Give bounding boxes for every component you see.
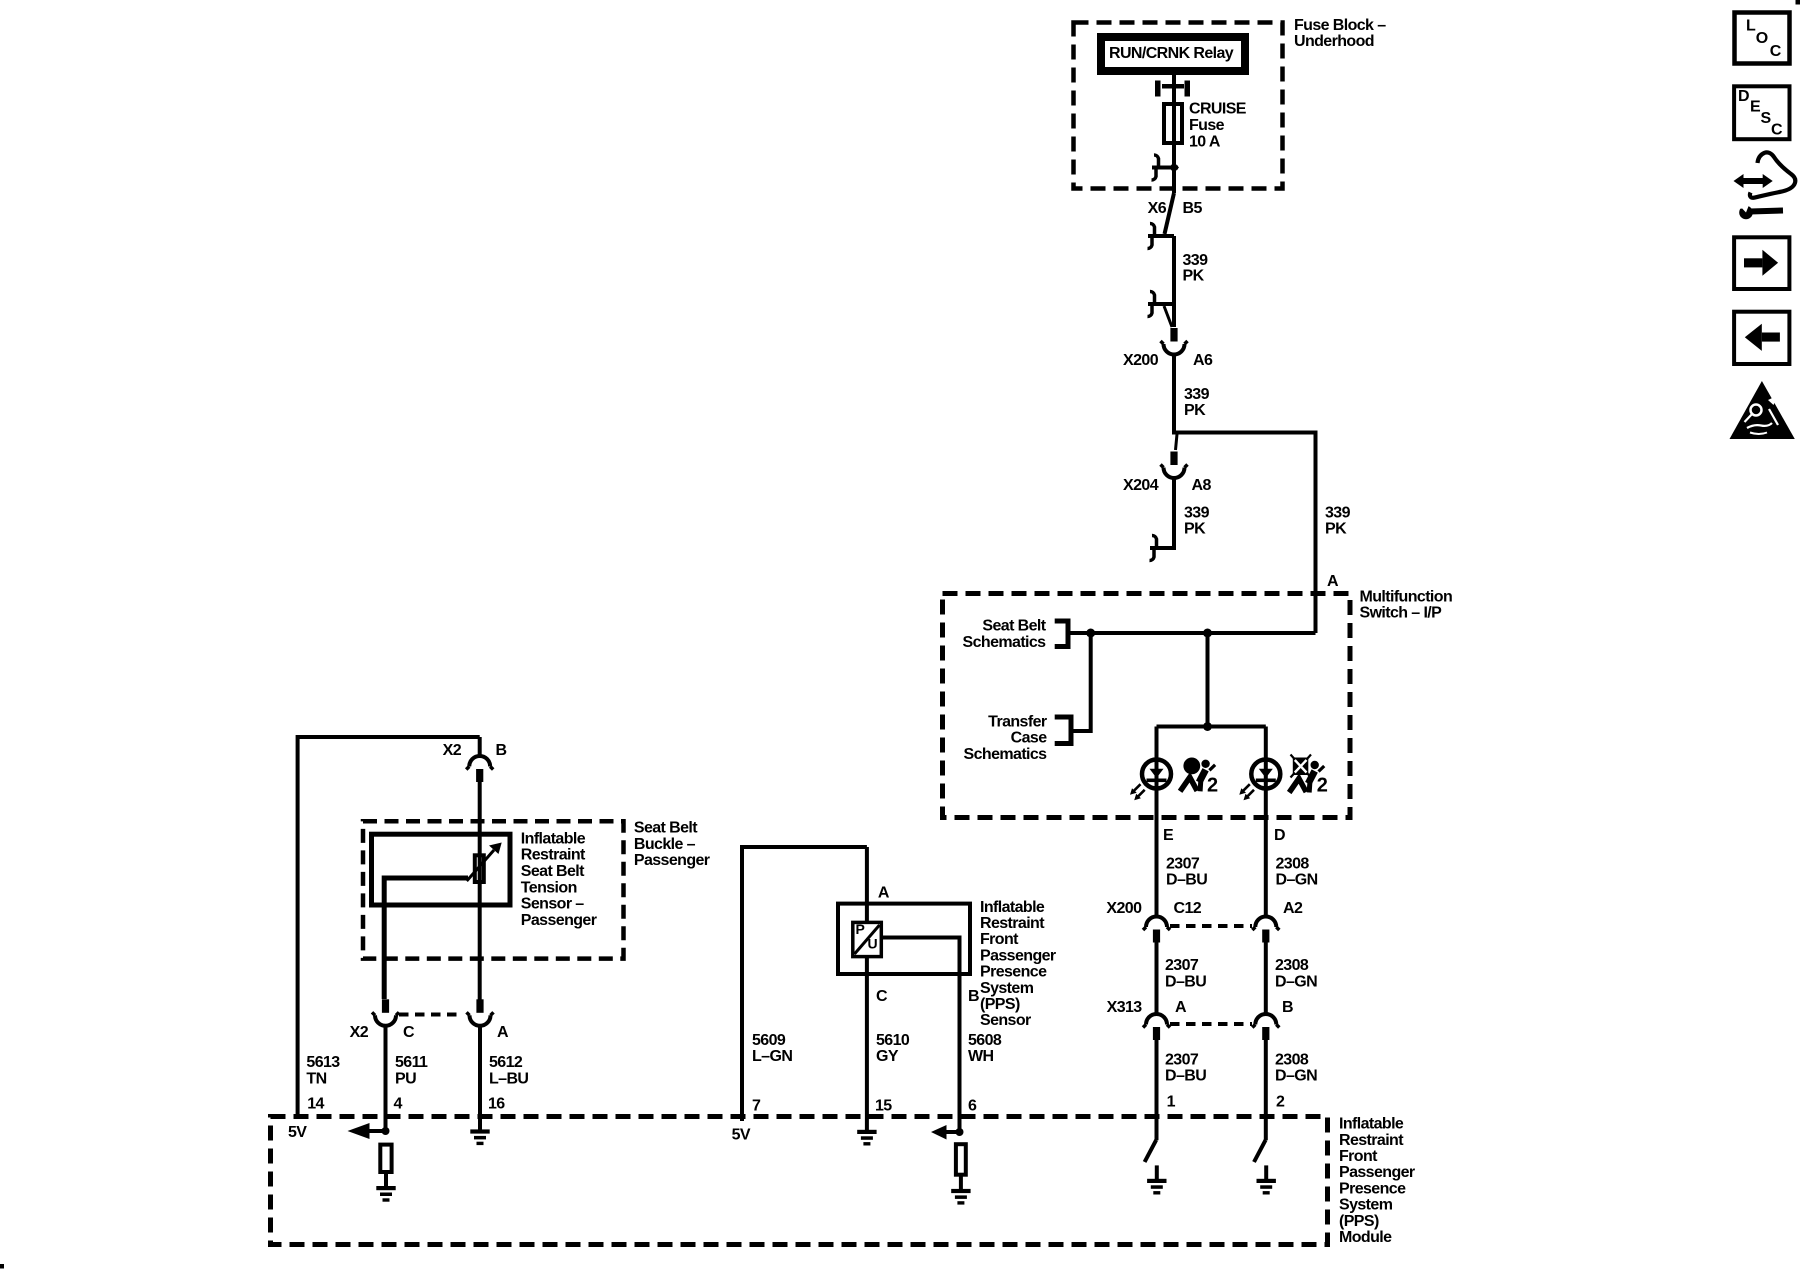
svg-text:5608: 5608 (968, 1032, 1002, 1049)
svg-text:Front: Front (1339, 1148, 1378, 1165)
svg-text:System: System (1339, 1197, 1393, 1214)
connector X313 dashed link (1170, 1022, 1252, 1026)
svg-text:5V: 5V (732, 1126, 751, 1143)
end clip to seat belt schematics (1150, 535, 1177, 560)
svg-text:Seat Belt: Seat Belt (982, 618, 1046, 635)
ground G2 (1257, 1179, 1276, 1195)
icon wrench (1750, 211, 1783, 212)
svg-text:X204: X204 (1123, 477, 1159, 494)
svg-text:Inflatable: Inflatable (521, 831, 586, 848)
svg-text:WH: WH (968, 1048, 994, 1065)
svg-text:L: L (1746, 18, 1756, 35)
svg-text:Case: Case (1011, 730, 1048, 747)
wire 5612 segment (478, 1025, 482, 1130)
wire resistor to ground 6 (959, 1175, 963, 1190)
fuse holder clip terminals (1155, 81, 1161, 97)
icon warning triangle (1730, 381, 1795, 439)
connector X204 A8 (1161, 452, 1188, 479)
svg-text:X313: X313 (1107, 999, 1143, 1016)
ground G4 pin 16 (470, 1129, 489, 1145)
svg-text:A2: A2 (1283, 900, 1303, 917)
transfer case bracket (1055, 717, 1071, 744)
svg-text:D–BU: D–BU (1166, 872, 1207, 889)
svg-text:Presence: Presence (1339, 1180, 1406, 1197)
svg-text:Schematics: Schematics (963, 634, 1047, 651)
connector X200 A6 (1161, 328, 1188, 355)
svg-text:TN: TN (306, 1070, 326, 1087)
svg-text:U: U (868, 936, 878, 952)
icon diagnostic jump (1750, 152, 1795, 197)
connector X313 A (1143, 1014, 1170, 1040)
svg-text:Fuse Block –: Fuse Block – (1294, 17, 1386, 34)
svg-text:Tension: Tension (521, 879, 577, 896)
connector X2 dashed link (399, 1013, 463, 1017)
switch contact 2 (1254, 1140, 1266, 1162)
svg-text:B: B (496, 742, 507, 759)
svg-text:2: 2 (1276, 1094, 1285, 1111)
splice clip in fuse block (1152, 155, 1179, 180)
svg-text:X200: X200 (1106, 900, 1142, 917)
svg-text:Restraint: Restraint (1339, 1132, 1404, 1149)
junction dot left (1086, 629, 1095, 638)
wire 339 PK segment 2 (1172, 354, 1176, 435)
wire 2307 E segment (1155, 820, 1159, 919)
svg-text:Presence: Presence (980, 964, 1047, 981)
wire 5613 top run (298, 737, 480, 1119)
svg-text:2308: 2308 (1275, 957, 1309, 974)
ground G1 (1147, 1179, 1166, 1195)
connector X200 dashed link (1170, 924, 1252, 928)
fuse CRUISE 10A body (1164, 104, 1182, 143)
svg-text:5610: 5610 (876, 1032, 910, 1049)
LED indicator right (1239, 760, 1280, 801)
wire 2308 segment c (1264, 1039, 1268, 1141)
svg-text:A: A (497, 1024, 509, 1041)
svg-text:Front: Front (980, 931, 1019, 948)
svg-text:5V: 5V (288, 1124, 307, 1141)
svg-text:PK: PK (1184, 402, 1206, 419)
jog into X204 plug (1176, 434, 1178, 450)
svg-text:7: 7 (752, 1097, 761, 1114)
svg-text:E: E (1750, 98, 1761, 115)
svg-text:PK: PK (1325, 521, 1347, 538)
svg-text:L–GN: L–GN (752, 1048, 792, 1065)
svg-text:5613: 5613 (306, 1054, 340, 1071)
svg-text:B5: B5 (1183, 200, 1203, 217)
svg-text:Sensor –: Sensor – (521, 896, 584, 913)
ground G5 pin 15 (857, 1130, 876, 1146)
svg-text:Inflatable: Inflatable (980, 899, 1045, 916)
junction dot pin 6 (956, 1128, 964, 1136)
svg-text:A: A (1175, 999, 1187, 1016)
connector X200 A2 (1252, 917, 1279, 943)
icon DESC box (1734, 86, 1789, 139)
svg-text:Seat Belt: Seat Belt (521, 863, 585, 880)
wire jog at X6 (1165, 193, 1175, 234)
multifunction switch dashed box (943, 594, 1351, 818)
svg-text:5609: 5609 (752, 1032, 786, 1049)
svg-text:339: 339 (1183, 252, 1209, 269)
svg-text:Multifunction: Multifunction (1360, 589, 1453, 606)
svg-text:2: 2 (1317, 775, 1328, 797)
svg-text:PK: PK (1183, 268, 1205, 285)
wire center drop (1206, 633, 1210, 727)
svg-text:16: 16 (488, 1095, 505, 1112)
wire 2307 segment b (1155, 941, 1159, 1016)
page corner mark bottom left (0, 1264, 4, 1269)
LED indicator left (1130, 760, 1171, 801)
connector X200 C12 (1143, 917, 1170, 943)
svg-text:Inflatable: Inflatable (1339, 1116, 1404, 1133)
svg-text:C: C (1771, 121, 1783, 138)
svg-text:PU: PU (395, 1070, 416, 1087)
svg-text:(PPS): (PPS) (980, 996, 1020, 1013)
fuse block underhood dashed box (1074, 23, 1283, 189)
icon left arrow box (1734, 312, 1789, 364)
PU transducer box (853, 922, 882, 956)
wire 339 PK segment 3 (1172, 478, 1176, 547)
svg-text:2307: 2307 (1166, 856, 1200, 873)
resistor R pin 4 (380, 1145, 391, 1172)
wire E drop in box (1155, 727, 1159, 821)
relay RUN/CRNK box (1101, 37, 1245, 71)
svg-text:Restraint: Restraint (980, 915, 1045, 932)
junction dot pin 4 (382, 1127, 390, 1135)
svg-text:E: E (1163, 827, 1174, 844)
lamp feed wire (1157, 725, 1266, 729)
airbag off person (1289, 761, 1324, 793)
svg-text:A: A (1327, 573, 1339, 590)
wire A drop (865, 847, 869, 922)
svg-text:Passenger: Passenger (634, 852, 710, 869)
svg-text:Restraint: Restraint (521, 847, 586, 864)
svg-text:GY: GY (876, 1048, 899, 1065)
svg-text:B: B (1282, 999, 1293, 1016)
svg-text:Passenger: Passenger (521, 912, 597, 929)
terminal clip X6 (1148, 223, 1175, 248)
wire 5609 top run (742, 847, 867, 1121)
PPS sensor box (838, 904, 970, 974)
wire 2308 segment b (1264, 941, 1268, 1016)
wire D drop in box (1264, 727, 1268, 821)
sensor internal wire (384, 878, 468, 999)
svg-text:Module: Module (1339, 1229, 1392, 1246)
tension sensor arrowhead (489, 843, 502, 855)
svg-text:2308: 2308 (1276, 856, 1310, 873)
airbag on person (1180, 760, 1215, 792)
svg-text:P: P (856, 921, 865, 937)
svg-text:C: C (876, 988, 888, 1005)
svg-text:2307: 2307 (1165, 957, 1199, 974)
svg-text:14: 14 (307, 1095, 324, 1112)
svg-text:D–BU: D–BU (1165, 973, 1206, 990)
svg-text:339: 339 (1184, 505, 1210, 522)
reference arrow pin 6 (947, 1130, 960, 1134)
svg-text:5612: 5612 (489, 1054, 523, 1071)
svg-text:10 A: 10 A (1189, 134, 1221, 151)
svg-text:Schematics: Schematics (964, 746, 1048, 763)
wire C drop (865, 957, 869, 1131)
svg-text:Sensor: Sensor (980, 1012, 1031, 1029)
connector X313 B (1252, 1014, 1279, 1040)
svg-text:Buckle –: Buckle – (634, 836, 696, 853)
svg-text:X6: X6 (1148, 200, 1167, 217)
svg-text:Fuse: Fuse (1189, 117, 1225, 134)
ground G3 (376, 1186, 395, 1202)
svg-text:A8: A8 (1192, 477, 1212, 494)
switch contact 1 (1145, 1140, 1157, 1162)
icon double arrow (1742, 178, 1764, 184)
junction dot center (1203, 629, 1212, 638)
svg-text:A6: A6 (1193, 352, 1213, 369)
airbag off icon crossed (1293, 758, 1309, 776)
svg-text:2308: 2308 (1275, 1051, 1309, 1068)
svg-text:X2: X2 (443, 742, 462, 759)
icon LOC box (1735, 13, 1790, 64)
connector X2 C (372, 999, 399, 1026)
svg-text:339: 339 (1184, 386, 1210, 403)
svg-text:2307: 2307 (1165, 1051, 1199, 1068)
wire 339 PK segment 1 (1172, 236, 1176, 327)
svg-text:D: D (1274, 827, 1285, 844)
svg-text:A: A (878, 885, 890, 902)
svg-text:Underhood: Underhood (1294, 33, 1374, 50)
wire relay to fuse (1172, 75, 1176, 193)
airbag on icon (1183, 758, 1200, 775)
svg-text:C12: C12 (1174, 900, 1202, 917)
svg-text:6: 6 (968, 1097, 977, 1114)
connector X2 B (466, 756, 493, 782)
svg-text:X2: X2 (350, 1024, 369, 1041)
svg-text:Switch – I/P: Switch – I/P (1360, 605, 1443, 622)
terminal clip above X200 (1148, 291, 1175, 316)
svg-text:System: System (980, 980, 1034, 997)
svg-text:S: S (1761, 110, 1772, 127)
tension sensor outer box (372, 834, 511, 905)
svg-text:Seat Belt: Seat Belt (634, 820, 698, 837)
svg-text:D–GN: D–GN (1275, 973, 1317, 990)
svg-text:C: C (1770, 43, 1782, 60)
icon right arrow box (1734, 237, 1789, 289)
svg-text:4: 4 (394, 1095, 403, 1112)
connector X2 A (467, 999, 494, 1026)
svg-text:Passenger: Passenger (1339, 1164, 1415, 1181)
svg-text:1: 1 (1167, 1094, 1176, 1111)
PPS module dashed box (271, 1117, 1328, 1245)
svg-text:RUN/CRNK Relay: RUN/CRNK Relay (1109, 45, 1234, 62)
wire X2 B drop (478, 737, 482, 758)
junction dot lamp feed (1203, 722, 1212, 731)
svg-text:L–BU: L–BU (489, 1070, 528, 1087)
splice diamond (1169, 162, 1179, 173)
reference arrow pin 4 (369, 1129, 386, 1133)
svg-text:Transfer: Transfer (988, 713, 1047, 730)
svg-text:B: B (968, 988, 979, 1005)
svg-text:(PPS): (PPS) (1339, 1213, 1379, 1230)
resistor R pin 6 (956, 1144, 966, 1175)
svg-text:D–GN: D–GN (1275, 1068, 1317, 1085)
svg-text:C: C (403, 1024, 415, 1041)
wire B sensor out (881, 938, 960, 1133)
tension sensor arrow (467, 850, 494, 881)
internal bus wire (1068, 631, 1316, 635)
page corner mark top right (1796, 0, 1800, 5)
tension sensor element (475, 855, 484, 882)
wire 2307 segment c (1155, 1039, 1159, 1141)
svg-text:D–BU: D–BU (1165, 1068, 1206, 1085)
jog into X200 plug (1164, 306, 1172, 327)
branch wire to multifunction switch (1174, 433, 1316, 634)
wire 2308 D segment (1264, 820, 1268, 919)
svg-text:X200: X200 (1123, 352, 1159, 369)
wire resistor to ground (384, 1172, 388, 1187)
svg-text:339: 339 (1325, 505, 1351, 522)
wire into buckle box (478, 780, 482, 1000)
ground stem 2 (1264, 1165, 1268, 1180)
ground G6 (951, 1189, 970, 1205)
svg-text:CRUISE: CRUISE (1189, 101, 1247, 118)
svg-text:D: D (1738, 88, 1750, 105)
wire to transfer case bracket (1071, 633, 1091, 731)
seat belt buckle dashed box (363, 821, 624, 958)
seat belt schematics bracket (1055, 621, 1068, 647)
svg-text:Passenger: Passenger (980, 947, 1056, 964)
svg-text:2: 2 (1207, 775, 1218, 797)
svg-text:D–GN: D–GN (1276, 872, 1318, 889)
svg-text:PK: PK (1184, 521, 1206, 538)
wire 5611 segment (384, 1025, 388, 1131)
svg-text:O: O (1756, 30, 1768, 47)
svg-text:5611: 5611 (395, 1054, 428, 1071)
svg-text:15: 15 (875, 1097, 892, 1114)
PU transducer diagonal (855, 925, 880, 954)
ground stem 1 (1155, 1165, 1159, 1180)
